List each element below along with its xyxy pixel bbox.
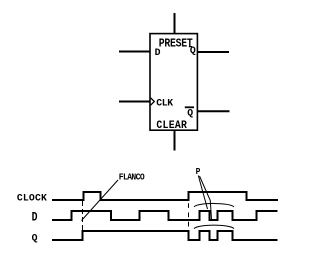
svg-text:CLK: CLK	[156, 97, 173, 108]
svg-text:Q: Q	[187, 107, 193, 118]
svg-text:CLOCK: CLOCK	[17, 193, 48, 204]
svg-text:D: D	[32, 211, 38, 224]
svg-text:CLEAR: CLEAR	[156, 119, 187, 132]
svg-text:FLANCO: FLANCO	[119, 172, 145, 183]
svg-text:D: D	[155, 48, 161, 59]
svg-text:Q: Q	[32, 232, 38, 243]
svg-text:PRESET: PRESET	[159, 38, 193, 51]
svg-text:P: P	[196, 167, 201, 178]
